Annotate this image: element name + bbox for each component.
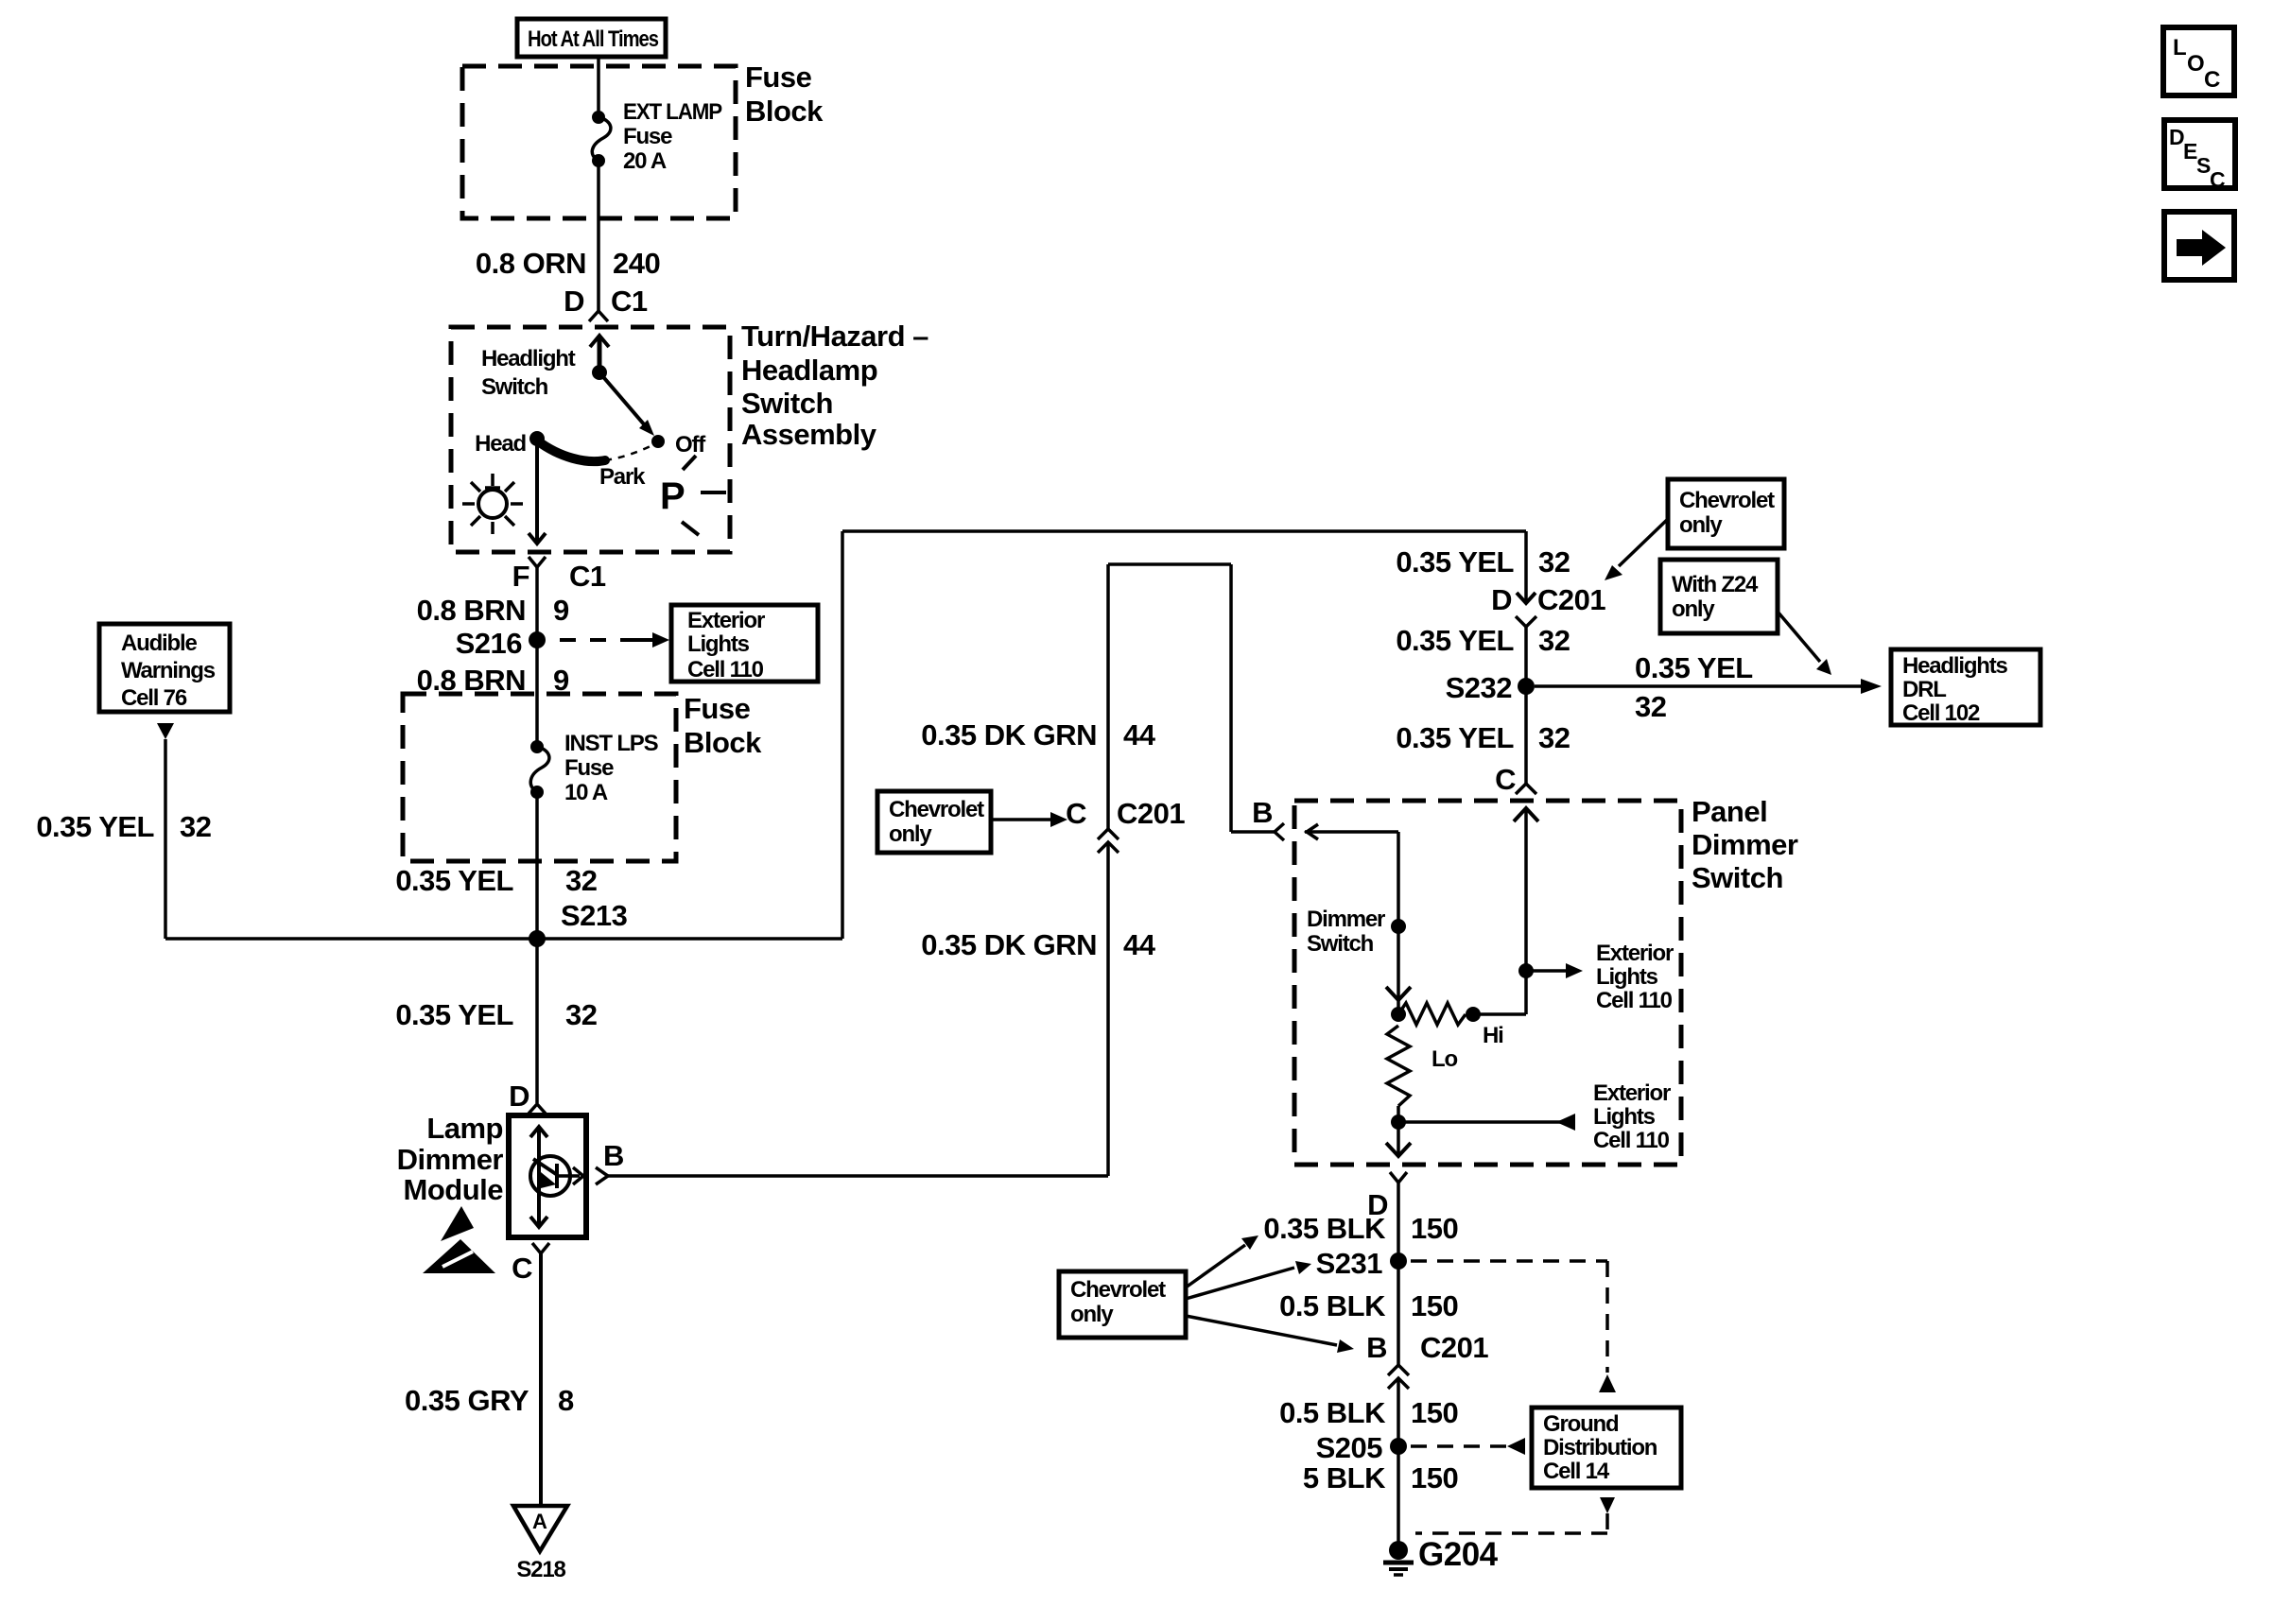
wire lo bottom exit xyxy=(1397,1122,1400,1156)
svg-text:0.35 YEL: 0.35 YEL xyxy=(1396,721,1514,754)
connector fork module pin D xyxy=(529,1104,546,1114)
wire label 5 BLK 150 xyxy=(1303,1461,1458,1494)
reference arrow audible warnings xyxy=(157,723,174,739)
ground distribution cell 14 box xyxy=(1532,1408,1681,1488)
svg-text:32: 32 xyxy=(1538,624,1570,657)
svg-text:Chevrolet: Chevrolet xyxy=(1679,488,1775,513)
svg-text:Chevrolet: Chevrolet xyxy=(1070,1277,1166,1303)
connector C201 symbol (DK GRN) xyxy=(1098,829,1119,853)
wire S232 to panel pin C xyxy=(1524,686,1528,784)
svg-text:Dimmer: Dimmer xyxy=(1307,907,1385,932)
module internal bidirectional arrow xyxy=(530,1127,547,1227)
connector C1 fork pin F xyxy=(529,557,546,567)
svg-text:32: 32 xyxy=(180,810,211,843)
resistor Hi horizontal zigzag xyxy=(1398,1003,1466,1025)
svg-text:8: 8 xyxy=(558,1384,574,1417)
LOC icon box xyxy=(2163,27,2234,95)
svg-text:S231: S231 xyxy=(1316,1247,1383,1280)
svg-text:Head: Head xyxy=(475,431,526,457)
svg-text:Cell 110: Cell 110 xyxy=(1596,988,1673,1013)
wire battery feed to fuse xyxy=(597,57,600,117)
svg-text:Lights: Lights xyxy=(687,631,750,657)
switch pivot xyxy=(592,365,607,380)
fuse block label xyxy=(745,60,824,128)
riser arrowhead up xyxy=(1514,808,1538,821)
wire label 0.35 YEL 32 (below C201) xyxy=(1396,624,1570,657)
svg-text:P: P xyxy=(660,475,685,517)
svg-text:C201: C201 xyxy=(1117,797,1185,830)
svg-text:32: 32 xyxy=(1538,545,1570,579)
splice S216 xyxy=(529,631,546,648)
svg-text:0.35 YEL: 0.35 YEL xyxy=(395,864,513,897)
svg-text:B: B xyxy=(603,1139,624,1172)
turn/hazard-headlamp switch assembly dashed outline xyxy=(451,327,730,552)
svg-text:Headlights: Headlights xyxy=(1902,653,2008,679)
svg-text:Block: Block xyxy=(745,95,824,128)
wire label 0.35 BLK 150 xyxy=(1263,1212,1458,1245)
svg-text:0.35 GRY: 0.35 GRY xyxy=(405,1384,529,1417)
switch detent thick arc Head-Park xyxy=(537,441,605,461)
wire S213 to lamp dimmer module xyxy=(535,939,539,1103)
svg-text:Cell 102: Cell 102 xyxy=(1902,700,1980,726)
svg-text:D: D xyxy=(509,1080,529,1113)
wire S232 branch to headlights DRL xyxy=(1535,679,1882,694)
contact dot Hi xyxy=(1466,1007,1481,1022)
svg-text:B: B xyxy=(1252,796,1273,829)
svg-text:0.5 BLK: 0.5 BLK xyxy=(1279,1396,1386,1429)
wire label 0.8 BRN 9 (below S216) xyxy=(417,664,569,697)
lamp dimmer module box xyxy=(509,1115,586,1237)
wire label 0.8 ORN 240 xyxy=(476,247,660,280)
splice S231 xyxy=(1390,1253,1407,1270)
svg-text:C: C xyxy=(512,1252,532,1285)
wire label 0.35 YEL 32 (above C201) xyxy=(1396,545,1570,579)
svg-text:5 BLK: 5 BLK xyxy=(1303,1461,1386,1494)
reference arrow to pin B xyxy=(1186,1316,1354,1353)
svg-text:Fuse: Fuse xyxy=(745,60,812,94)
splice S205 xyxy=(1390,1438,1407,1455)
panel dimmer switch label xyxy=(1692,795,1798,894)
svg-text:Exterior: Exterior xyxy=(1596,941,1674,966)
svg-text:Cell 76: Cell 76 xyxy=(121,685,187,711)
wire label 0.8 BRN 9 xyxy=(417,594,569,627)
ground G204 symbol xyxy=(1383,1541,1414,1575)
svg-text:only: only xyxy=(1672,596,1715,622)
svg-text:S232: S232 xyxy=(1446,671,1512,704)
wire C201 to S232 xyxy=(1524,627,1528,686)
svg-text:Audible: Audible xyxy=(121,631,197,656)
wire label 0.35 YEL 32 (left branch) xyxy=(36,810,211,843)
svg-text:Warnings: Warnings xyxy=(121,658,216,683)
svg-text:32: 32 xyxy=(565,864,597,897)
reference arrow to pin C xyxy=(991,812,1067,827)
svg-text:Switch: Switch xyxy=(741,387,833,420)
dashed return to G204 xyxy=(1415,1513,1607,1533)
dial tick lower xyxy=(682,522,699,535)
svg-text:20 A: 20 A xyxy=(623,148,667,174)
svg-text:32: 32 xyxy=(565,998,597,1031)
exterior lights text (upper) xyxy=(1596,941,1674,1013)
svg-text:only: only xyxy=(1679,512,1723,538)
junction dot hi branch xyxy=(1518,963,1534,978)
svg-text:Cell 110: Cell 110 xyxy=(1593,1128,1670,1153)
svg-text:Cell 110: Cell 110 xyxy=(687,657,764,682)
assembly label xyxy=(741,320,928,451)
fuse value text INST LPS Fuse 10 A xyxy=(564,731,659,805)
svg-text:C: C xyxy=(2204,67,2220,93)
svg-text:Chevrolet: Chevrolet xyxy=(889,797,984,822)
wire label 0.5 BLK 150 xyxy=(1279,1289,1458,1322)
junction dot hi/lo xyxy=(1391,1007,1406,1022)
svg-text:C201: C201 xyxy=(1420,1331,1488,1364)
svg-text:0.8 BRN: 0.8 BRN xyxy=(417,664,526,697)
wire label 0.5 BLK 150 (2) xyxy=(1279,1396,1458,1429)
svg-text:0.35 YEL: 0.35 YEL xyxy=(36,810,154,843)
next page arrow icon box xyxy=(2164,212,2234,280)
svg-text:C1: C1 xyxy=(569,560,606,593)
svg-text:L: L xyxy=(2173,35,2187,60)
reference arrow chevrolet to C201 xyxy=(1605,519,1668,580)
svg-text:D: D xyxy=(1491,583,1512,616)
dial tick upper xyxy=(683,456,696,470)
fuse block label xyxy=(684,692,762,759)
wire label 0.35 YEL 32 (to module) xyxy=(395,998,597,1031)
contact Head xyxy=(529,431,545,446)
svg-text:Headlamp: Headlamp xyxy=(741,354,877,387)
svg-text:150: 150 xyxy=(1411,1289,1458,1322)
svg-text:S213: S213 xyxy=(561,899,628,932)
svg-text:Fuse: Fuse xyxy=(564,755,614,781)
svg-text:C: C xyxy=(1495,763,1516,796)
svg-text:EXT LAMP: EXT LAMP xyxy=(623,99,722,125)
svg-text:Park: Park xyxy=(599,464,646,490)
fuse INST LPS 10A symbol xyxy=(530,740,549,799)
splice S213 xyxy=(529,930,546,947)
svg-text:Switch: Switch xyxy=(481,374,548,400)
svg-text:Dimmer: Dimmer xyxy=(397,1143,504,1176)
svg-text:Lights: Lights xyxy=(1593,1104,1656,1130)
connector fork panel pin C xyxy=(1516,784,1536,794)
DESC icon box xyxy=(2164,120,2235,192)
wire DK GRN crossover top xyxy=(1108,562,1231,566)
connector C201 symbol (YEL) arrow and fork xyxy=(1516,593,1536,627)
svg-text:0.35 DK GRN: 0.35 DK GRN xyxy=(921,718,1097,752)
wire Head contact down xyxy=(535,439,539,543)
wire label 0.35 GRY 8 xyxy=(405,1384,574,1417)
svg-text:Exterior: Exterior xyxy=(687,608,765,633)
svg-text:Distribution: Distribution xyxy=(1543,1435,1657,1460)
svg-text:Turn/Hazard –: Turn/Hazard – xyxy=(741,320,928,353)
wire panel D to S231 xyxy=(1397,1183,1400,1365)
svg-text:Hot At All Times: Hot At All Times xyxy=(528,26,659,52)
svg-text:0.35 DK GRN: 0.35 DK GRN xyxy=(921,928,1097,961)
dimmer switch label xyxy=(1307,907,1385,957)
svg-text:0.5 BLK: 0.5 BLK xyxy=(1279,1289,1386,1322)
svg-text:S205: S205 xyxy=(1316,1431,1383,1464)
svg-text:INST LPS: INST LPS xyxy=(564,731,659,756)
svg-text:Cell 14: Cell 14 xyxy=(1543,1459,1610,1484)
wire pin F to fuse block xyxy=(535,567,539,747)
svg-text:0.8 BRN: 0.8 BRN xyxy=(417,594,526,627)
exterior lights cell 110 box xyxy=(671,605,818,682)
wire fuse to S213 xyxy=(535,792,539,939)
connector fork module pin C xyxy=(532,1243,549,1253)
svg-text:32: 32 xyxy=(1538,721,1570,754)
svg-text:150: 150 xyxy=(1411,1461,1458,1494)
svg-text:Switch: Switch xyxy=(1307,931,1374,957)
connector fork panel pin B xyxy=(1275,823,1284,840)
switch feed arrow up xyxy=(590,336,609,372)
wire label 0.35 YEL 32 xyxy=(395,864,597,897)
with Z24 only box xyxy=(1660,560,1778,633)
audible warnings box xyxy=(99,624,230,712)
dashed branch S231 to ground distribution xyxy=(1411,1261,1616,1392)
wire label 0.35 DK GRN 44 (lower) xyxy=(921,928,1155,961)
svg-text:0.35 YEL: 0.35 YEL xyxy=(1396,545,1514,579)
wire label 0.35 DK GRN 44 (upper) xyxy=(921,718,1155,752)
arrow to exterior lights (upper) xyxy=(1526,963,1583,978)
wiper tap dot xyxy=(1391,919,1406,934)
svg-text:C1: C1 xyxy=(611,285,648,318)
svg-text:D: D xyxy=(564,285,584,318)
dashed branch S205 to ground distribution xyxy=(1411,1438,1525,1455)
detent dashed arc Park-Off xyxy=(605,444,654,460)
chevrolet only box (connector C201 C) xyxy=(877,791,991,853)
svg-text:B: B xyxy=(1366,1331,1387,1364)
connector fork panel pin D xyxy=(1390,1172,1407,1183)
wire label 0.35 YEL 32 (to panel) xyxy=(1396,721,1570,754)
svg-text:DRL: DRL xyxy=(1902,677,1946,702)
svg-text:Assembly: Assembly xyxy=(741,418,877,451)
headlights DRL cell 102 box xyxy=(1891,649,2040,726)
panel dimmer switch dashed outline xyxy=(1294,801,1681,1165)
fuse block (INST LPS) dashed outline xyxy=(403,694,676,861)
fuse block (EXT LAMP) dashed outline xyxy=(462,66,736,218)
wire S213 horizontal run xyxy=(165,937,842,941)
power label box Hot At All Times xyxy=(517,19,666,57)
wiper arrowhead xyxy=(1386,987,1411,1000)
exit arrowhead down xyxy=(1386,1143,1411,1156)
svg-text:With Z24: With Z24 xyxy=(1672,572,1759,597)
svg-text:9: 9 xyxy=(553,594,569,627)
contact Off xyxy=(651,435,665,448)
svg-text:Panel: Panel xyxy=(1692,795,1767,828)
reference arrow to S231 xyxy=(1186,1261,1311,1299)
svg-text:Block: Block xyxy=(684,726,762,759)
wire top run to C201 pin D xyxy=(842,529,1526,533)
svg-text:O: O xyxy=(2187,51,2205,77)
svg-text:150: 150 xyxy=(1411,1396,1458,1429)
svg-text:Hi: Hi xyxy=(1483,1023,1503,1048)
svg-text:Off: Off xyxy=(675,432,706,458)
dial tick middle xyxy=(701,491,726,494)
svg-text:240: 240 xyxy=(613,247,660,280)
svg-text:0.35 BLK: 0.35 BLK xyxy=(1263,1212,1386,1245)
svg-text:Fuse: Fuse xyxy=(684,692,751,725)
svg-text:0.35 YEL: 0.35 YEL xyxy=(1396,624,1514,657)
svg-text:0.35 YEL: 0.35 YEL xyxy=(395,998,513,1031)
exterior lights text (lower) xyxy=(1593,1080,1671,1153)
wire DK GRN riser above C201 xyxy=(1106,564,1110,829)
wire DK GRN riser below C201 xyxy=(1106,842,1110,1176)
svg-text:A: A xyxy=(532,1510,547,1533)
svg-text:Fuse: Fuse xyxy=(623,124,672,149)
incoming arrow at pin B xyxy=(1305,824,1398,839)
svg-text:Module: Module xyxy=(404,1173,504,1206)
hi branch riser xyxy=(1524,808,1528,1014)
wire DK GRN crossover down xyxy=(1229,564,1233,832)
svg-text:S218: S218 xyxy=(516,1557,565,1582)
connector C201 symbol (ground) xyxy=(1388,1365,1409,1389)
chevrolet only box (ground splices) xyxy=(1059,1271,1186,1338)
dimmer wiper wire xyxy=(1397,832,1400,1014)
wire audible warnings branch xyxy=(164,739,167,939)
svg-text:Switch: Switch xyxy=(1692,861,1783,894)
triangle below ground distribution box xyxy=(1600,1497,1615,1513)
svg-text:C201: C201 xyxy=(1537,583,1605,616)
svg-text:Lo: Lo xyxy=(1431,1046,1457,1072)
svg-text:Lights: Lights xyxy=(1596,964,1658,990)
svg-text:C: C xyxy=(1066,797,1086,830)
svg-text:150: 150 xyxy=(1411,1212,1458,1245)
svg-text:G204: G204 xyxy=(1418,1536,1499,1573)
wire module C to splice S218 xyxy=(539,1253,543,1506)
headlight switch label xyxy=(481,346,576,400)
svg-text:Headlight: Headlight xyxy=(481,346,576,371)
module transistor symbol xyxy=(530,1156,583,1196)
resistor Lo vertical zigzag xyxy=(1387,1026,1410,1106)
wire S213 riser xyxy=(841,531,844,939)
svg-text:F: F xyxy=(512,560,529,593)
svg-text:Ground: Ground xyxy=(1543,1411,1619,1437)
svg-text:only: only xyxy=(1070,1302,1114,1327)
connector C1 female fork xyxy=(589,311,608,321)
svg-text:10 A: 10 A xyxy=(564,780,608,805)
splice S232 xyxy=(1518,678,1535,695)
reference arrow Z24 to DRL wire xyxy=(1778,612,1831,675)
module label xyxy=(397,1112,504,1206)
wire fuse to connector C1 pin D xyxy=(597,161,600,311)
fuse value text EXT LAMP Fuse 20 A xyxy=(623,99,722,174)
wire C201 to G204 xyxy=(1397,1378,1400,1543)
svg-text:32: 32 xyxy=(1635,690,1666,723)
connector fork module pin B xyxy=(596,1167,608,1184)
wire C201 D drop xyxy=(1524,531,1528,603)
switch wiper arm to Off xyxy=(599,372,654,436)
wire DK GRN to panel dimmer pin B xyxy=(1231,830,1275,834)
svg-text:0.35 YEL: 0.35 YEL xyxy=(1635,651,1753,684)
arrowhead at box exit xyxy=(529,533,546,544)
wire module B to C201 xyxy=(608,1174,1108,1178)
fuse EXT LAMP 20A symbol xyxy=(592,111,611,167)
splice adapter S218 triangle xyxy=(513,1506,567,1551)
wire Lo to junction xyxy=(1397,1106,1400,1122)
svg-text:C: C xyxy=(2210,167,2226,192)
wire Hi to riser xyxy=(1473,1012,1526,1016)
svg-text:0.8 ORN: 0.8 ORN xyxy=(476,247,586,280)
reference arrow to 0.35 BLK wire xyxy=(1186,1235,1258,1287)
svg-text:Exterior: Exterior xyxy=(1593,1080,1671,1106)
svg-text:Dimmer: Dimmer xyxy=(1692,828,1798,861)
junction dot lo bottom xyxy=(1391,1114,1406,1130)
svg-text:S216: S216 xyxy=(456,627,523,660)
dashed reference arrow to exterior lights xyxy=(560,632,669,648)
wire from exterior lights (incoming) xyxy=(1398,1114,1575,1131)
svg-text:only: only xyxy=(889,821,932,847)
chevrolet only box (top right) xyxy=(1668,479,1784,548)
ESD sensitive device symbol xyxy=(423,1206,495,1273)
park lamp symbol xyxy=(462,474,523,534)
svg-text:44: 44 xyxy=(1123,928,1156,961)
svg-text:Lamp: Lamp xyxy=(426,1112,503,1145)
svg-text:44: 44 xyxy=(1123,718,1156,752)
